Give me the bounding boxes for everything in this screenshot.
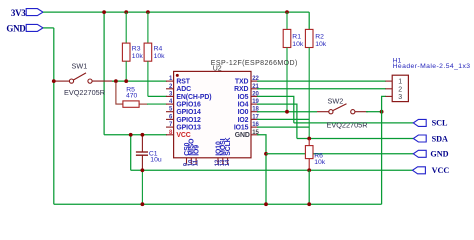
svg-text:IO2: IO2 [238, 117, 249, 124]
svg-text:10k: 10k [154, 53, 166, 60]
junction dot SDA row at R2/R6 column [307, 137, 311, 141]
svg-text:R3: R3 [132, 46, 141, 53]
svg-text:GND: GND [235, 132, 250, 139]
svg-text:IO0: IO0 [238, 109, 249, 116]
net flag VCC [413, 166, 450, 175]
svg-text:IO15: IO15 [234, 125, 249, 132]
junction dot RST row at R3 column [124, 79, 128, 83]
svg-text:EVQ22705R: EVQ22705R [327, 120, 368, 129]
svg-text:14: 14 [225, 159, 231, 166]
junction dot bottom rail at C1 [141, 202, 145, 206]
wire VCC lower rail [131, 169, 413, 171]
svg-text:10u: 10u [150, 157, 162, 164]
svg-text:RST: RST [176, 79, 190, 86]
junction dot bottom rail at R6 column [307, 202, 311, 206]
svg-text:10k: 10k [292, 41, 304, 48]
wire riser VCC rail to bottom rail [308, 170, 310, 204]
U2 right pin numbers [252, 76, 259, 136]
svg-text:TXD: TXD [235, 79, 249, 86]
svg-text:ADC: ADC [176, 86, 191, 93]
connector H1 header [392, 58, 470, 102]
svg-text:VCC: VCC [176, 132, 190, 139]
junction dot bottom rail at GND riser [264, 202, 268, 206]
junction dot top rail at VCC riser [102, 10, 106, 14]
wire GND left vertical [53, 28, 55, 204]
wire RST row SW1 to pin1 [112, 80, 167, 82]
svg-text:GPIO14: GPIO14 [176, 109, 201, 116]
resistor R2 [305, 29, 313, 138]
svg-text:IO5: IO5 [238, 94, 249, 101]
junction dot top rail at R3 [124, 10, 128, 14]
wire 3V3 top rail [43, 11, 309, 13]
svg-text:SCLK: SCLK [225, 137, 232, 155]
wire RXD row to H1 pin2 [257, 88, 386, 90]
svg-text:EVQ22705R: EVQ22705R [64, 88, 105, 97]
junction dot IO0 row at R1 column [285, 110, 289, 114]
svg-text:3: 3 [398, 94, 402, 101]
wire GND bottom rail [54, 203, 382, 205]
svg-text:SW2: SW2 [328, 96, 344, 105]
svg-text:11: 11 [193, 159, 199, 166]
wire IO5 to SCL riser [257, 96, 294, 123]
svg-text:SDA: SDA [432, 134, 448, 143]
U2 left pin names [176, 79, 211, 140]
U2 bottom pin names (vertical) [184, 137, 232, 155]
wire SW2 to GND riser [366, 111, 382, 113]
wire IO0 row to SW2 [257, 111, 317, 113]
svg-text:3V3: 3V3 [11, 8, 26, 18]
wire SCL row [294, 122, 413, 124]
net flag GND (top left) [6, 23, 43, 33]
junction dot GND riser at GND flag row [264, 152, 268, 156]
wire TXD row to H1 pin1 [257, 80, 386, 82]
U2 right pin stubs 22-15 [251, 81, 259, 135]
junction dot R6 bottom on VCC rail [307, 168, 311, 172]
wire GND flag row [266, 153, 413, 155]
net flag SCL [413, 119, 448, 128]
svg-text:EN(CH-PD): EN(CH-PD) [176, 94, 211, 101]
resistor R5 (horizontal, RST to GPIO16) [116, 82, 167, 107]
wire IO2 row [257, 118, 309, 120]
svg-text:IO9: IO9 [193, 145, 200, 156]
switch SW1 [55, 73, 114, 83]
svg-text:ESP-12F(ESP8266MOD): ESP-12F(ESP8266MOD) [211, 60, 298, 67]
wire GND flag to left vertical [43, 27, 54, 29]
svg-text:10k: 10k [314, 159, 326, 166]
svg-text:RXD: RXD [234, 86, 248, 93]
junction dot VCC row at C1 [141, 133, 145, 137]
wire IO4 to SDA riser [257, 104, 297, 138]
net flag SDA [413, 134, 448, 143]
U2 left pin numbers [169, 76, 173, 136]
junction dot VCC row at VCC-rail riser [129, 133, 133, 137]
svg-text:IO4: IO4 [238, 102, 249, 109]
wire IO15 row [257, 126, 309, 128]
svg-text:470: 470 [126, 93, 138, 100]
junction dot SW1 on GND vertical [52, 79, 56, 83]
svg-text:GPIO16: GPIO16 [176, 102, 201, 109]
net flag GND (right) [413, 150, 448, 159]
resistor R6 [305, 139, 313, 171]
op IC U2 ESP-12F box [174, 60, 298, 158]
svg-text:U2: U2 [213, 65, 222, 72]
U2 bottom pin numbers (vertical) [184, 159, 231, 166]
junction dot RST row at R5 column [114, 79, 118, 83]
svg-text:GND: GND [6, 23, 26, 33]
svg-text:SCL: SCL [432, 119, 448, 128]
wire R2 corner from top rail [308, 12, 310, 29]
junction dot top rail at R1 [285, 10, 289, 14]
U2 left pin stubs 1-8 [166, 81, 174, 135]
U2 bottom pin stubs 9-14 [187, 158, 228, 165]
resistor R3 [122, 12, 130, 81]
wire GND riser to H1 pin3 [382, 96, 386, 204]
svg-text:R2: R2 [315, 33, 324, 40]
svg-text:R4: R4 [154, 46, 163, 53]
svg-text:2: 2 [398, 86, 402, 93]
svg-text:VCC: VCC [432, 166, 450, 175]
resistor R1 [283, 12, 291, 112]
junction dot SW2 at GND riser [380, 110, 384, 114]
svg-text:GPIO12: GPIO12 [176, 117, 201, 124]
H1 pin numbers [398, 79, 402, 101]
wire VCC row to pin 8 [104, 134, 167, 136]
svg-text:R1: R1 [292, 33, 301, 40]
wire EN row from R4 to pin 3 [148, 95, 167, 97]
junction dot C1 bottom on VCC rail [141, 168, 145, 172]
wire GND pin 15 to riser [257, 135, 266, 204]
U2 right pin names [234, 79, 250, 140]
resistor R4 [144, 12, 152, 96]
junction dot top rail at R4 [146, 10, 150, 14]
svg-text:10k: 10k [315, 41, 327, 48]
wire SDA row [297, 138, 413, 140]
svg-text:1: 1 [398, 79, 402, 86]
switch SW2 [317, 104, 368, 114]
svg-text:SW1: SW1 [72, 61, 88, 70]
wire VCC rail riser [130, 135, 132, 171]
wire 3V3 riser to VCC row [103, 12, 105, 135]
H1 pin stubs [385, 81, 392, 96]
net flag 3V3 [11, 8, 43, 18]
svg-text:GPIO13: GPIO13 [176, 125, 201, 132]
svg-text:10k: 10k [132, 53, 144, 60]
svg-text:GND: GND [430, 150, 448, 159]
capacitor C1 [136, 135, 148, 204]
svg-text:Header-Male-2.54_1x3: Header-Male-2.54_1x3 [393, 63, 471, 70]
